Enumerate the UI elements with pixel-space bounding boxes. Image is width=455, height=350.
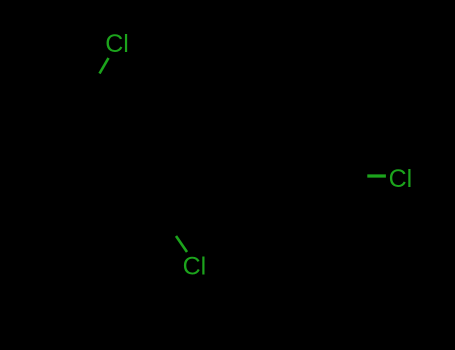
svg-text:Cl: Cl (183, 253, 207, 281)
svg-text:Cl: Cl (105, 30, 129, 58)
svg-text:Cl: Cl (389, 165, 413, 193)
